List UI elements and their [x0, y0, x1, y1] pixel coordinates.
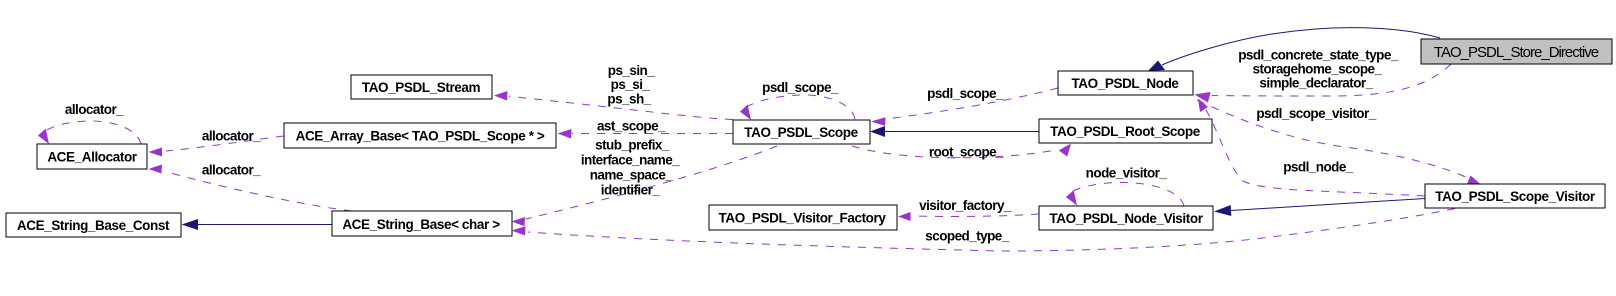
node TAO_PSDL_Node_Visitor — [1039, 206, 1213, 230]
svg-text:TAO_PSDL_Node: TAO_PSDL_Node — [1071, 76, 1179, 91]
wire: ast_scope_ from TAO_PSDL_Scope to ACE_Array_Base — [558, 119, 734, 139]
wire: node_visitor_ self-loop on TAO_PSDL_Node_Visitor — [1066, 166, 1184, 207]
svg-text:TAO_PSDL_Visitor_Factory: TAO_PSDL_Visitor_Factory — [719, 211, 887, 226]
node TAO_PSDL_Scope — [733, 120, 870, 144]
svg-text:psdl_scope_visitor_: psdl_scope_visitor_ — [1256, 106, 1376, 121]
svg-text:TAO_PSDL_Scope_Visitor: TAO_PSDL_Scope_Visitor — [1435, 189, 1596, 204]
svg-text:interface_name_: interface_name_ — [581, 153, 680, 168]
wire: inheritance TAO_PSDL_Scope_Visitor to TAO_PSDL_Node_Visitor — [1214, 199, 1425, 217]
wire: inheritance TAO_PSDL_Root_Scope to TAO_PSDL_Scope — [870, 126, 1039, 137]
wire: allocator_ self-loop on ACE_Allocator — [38, 102, 141, 144]
svg-text:TAO_PSDL_Node_Visitor: TAO_PSDL_Node_Visitor — [1049, 211, 1203, 226]
svg-text:ps_sin_: ps_sin_ — [608, 63, 655, 78]
svg-text:ACE_String_Base_Const: ACE_String_Base_Const — [17, 218, 170, 233]
node ACE_String_Base< char > — [332, 211, 512, 236]
wire: psdl_node_ from TAO_PSDL_Scope_Visitor to TAO_PSDL_Node — [1198, 99, 1425, 197]
svg-text:allocator_: allocator_ — [202, 129, 261, 144]
svg-text:name_space_: name_space_ — [590, 168, 674, 183]
node ACE_Array_Base< TAO_PSDL_Scope * > — [284, 123, 556, 148]
node ACE_Allocator — [37, 144, 147, 169]
svg-text:psdl_node_: psdl_node_ — [1283, 160, 1354, 175]
node TAO_PSDL_Stream — [351, 75, 492, 99]
svg-text:TAO_PSDL_Stream: TAO_PSDL_Stream — [362, 80, 481, 95]
wire: root_scope_ from TAO_PSDL_Scope to TAO_PSDL_Root_Scope — [852, 144, 1071, 160]
node ACE_String_Base_Const — [6, 213, 181, 237]
wire: inheritance TAO_PSDL_Store_Directive to TAO_PSDL_Node — [1148, 28, 1440, 71]
node TAO_PSDL_Store_Directive (current class, gray) — [1421, 39, 1612, 64]
svg-text:psdl_concrete_state_type_: psdl_concrete_state_type_ — [1238, 48, 1399, 63]
svg-text:ACE_Allocator: ACE_Allocator — [47, 150, 137, 165]
svg-text:visitor_factory_: visitor_factory_ — [919, 198, 1012, 213]
wire: psdl_scope_ from TAO_PSDL_Node to TAO_PSDL_Scope — [871, 86, 1058, 126]
wire: inheritance ACE_String_Base to ACE_String_Base_Const — [182, 219, 333, 230]
svg-text:simple_declarator_: simple_declarator_ — [1259, 76, 1373, 91]
svg-text:ps_sh_: ps_sh_ — [607, 92, 651, 107]
svg-text:ACE_Array_Base< TAO_PSDL_Scope: ACE_Array_Base< TAO_PSDL_Scope * > — [296, 129, 545, 144]
wire: ps_sin_ ps_si_ ps_sh_ from TAO_PSDL_Scope to TAO_PSDL_Stream — [494, 63, 733, 120]
svg-text:psdl_scope_: psdl_scope_ — [927, 86, 1004, 101]
svg-text:storagehome_scope_: storagehome_scope_ — [1253, 62, 1383, 77]
node TAO_PSDL_Root_Scope — [1039, 119, 1212, 143]
node TAO_PSDL_Node — [1058, 71, 1193, 95]
wire: allocator_ from ACE_String_Base to ACE_Allocator — [149, 163, 353, 212]
node TAO_PSDL_Scope_Visitor — [1425, 184, 1605, 208]
node TAO_PSDL_Visitor_Factory — [709, 205, 897, 230]
svg-text:scoped_type_: scoped_type_ — [925, 229, 1009, 244]
svg-text:allocator_: allocator_ — [65, 102, 124, 117]
wire: visitor_factory_ from TAO_PSDL_Node_Visitor to TAO_PSDL_Visitor_Factory — [898, 198, 1039, 221]
wire: psdl_concrete_state_type_ storagehome_scope_ simple_declarator_ from TAO_PSDL_Store_Directive to TAO_PSDL_Node — [1195, 48, 1452, 103]
svg-text:TAO_PSDL_Scope: TAO_PSDL_Scope — [744, 125, 858, 140]
svg-text:TAO_PSDL_Root_Scope: TAO_PSDL_Root_Scope — [1050, 124, 1201, 139]
svg-text:psdl_scope_: psdl_scope_ — [762, 80, 839, 95]
svg-text:TAO_PSDL_Store_Directive: TAO_PSDL_Store_Directive — [1434, 44, 1599, 61]
wire: psdl_scope_visitor_ from TAO_PSDL_Node to TAO_PSDL_Scope_Visitor — [1197, 100, 1481, 185]
svg-text:ps_si_: ps_si_ — [611, 77, 651, 92]
svg-text:stub_prefix_: stub_prefix_ — [595, 138, 670, 153]
svg-text:ast_scope_: ast_scope_ — [597, 119, 666, 134]
svg-text:node_visitor_: node_visitor_ — [1086, 166, 1168, 181]
wire: stub_prefix_ interface_name_ name_space_ identifier_ from TAO_PSDL_Scope to ACE_String_Base — [512, 138, 778, 227]
svg-text:identifier_: identifier_ — [601, 183, 661, 198]
svg-text:ACE_String_Base< char >: ACE_String_Base< char > — [342, 217, 500, 232]
wire: scoped_type_ from TAO_PSDL_Scope_Visitor to ACE_String_Base — [512, 209, 1456, 252]
wire: psdl_scope_ self-loop on TAO_PSDL_Scope — [740, 80, 855, 120]
wire: allocator_ from ACE_Array_Base to ACE_Allocator — [149, 129, 285, 157]
svg-text:allocator_: allocator_ — [202, 163, 261, 178]
svg-text:root_scope_: root_scope_ — [929, 145, 1004, 160]
